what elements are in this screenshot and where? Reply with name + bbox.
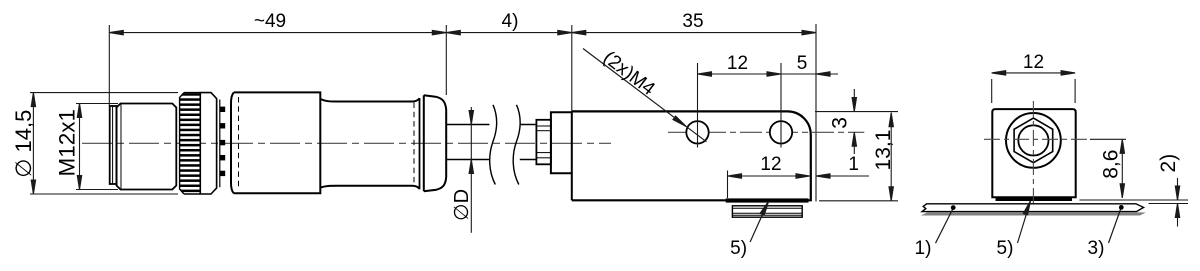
contact strip [216, 99, 218, 188]
hole crosshair left / ext line [697, 63, 699, 148]
svg-text:M12x1: M12x1 [55, 109, 80, 177]
sensing face strip [726, 198, 809, 202]
svg-text:8,6: 8,6 [1100, 150, 1123, 179]
svg-text:~49: ~49 [254, 11, 286, 32]
sensor main body [572, 111, 811, 200]
dim ~49 [109, 25, 446, 106]
end view vertical centerline [1032, 101, 1034, 206]
outer circle [1006, 113, 1061, 168]
svg-text:∅D: ∅D [451, 189, 473, 221]
dim M12x1 dimension line [76, 104, 118, 190]
dim 13,1 [819, 113, 898, 201]
cable break curve 2 [513, 105, 520, 185]
plate dot 1 [951, 205, 956, 210]
sensor body joint line [571, 111, 573, 200]
hidden line body [238, 97, 240, 190]
mounting plate (end view) [922, 204, 1144, 212]
pins [220, 107, 225, 176]
svg-text:3): 3) [1088, 238, 1105, 259]
svg-text:1): 1) [915, 238, 932, 259]
dim 3 [815, 89, 898, 154]
svg-text:1: 1 [848, 154, 859, 175]
strain relief collar [424, 95, 446, 191]
end view square body [992, 109, 1075, 197]
plate dot 2 [1119, 205, 1124, 210]
cable segment 1 [446, 124, 489, 126]
hole centerline [668, 131, 864, 133]
label 5) leader (side view) [750, 202, 768, 243]
thread M12 body [117, 104, 177, 190]
hole M4 right [770, 121, 792, 143]
sensor end cap [551, 112, 572, 173]
sensing tab plate (side view) [732, 206, 802, 217]
sensing face strip (end view) [996, 198, 1073, 201]
svg-text:4): 4) [502, 11, 519, 32]
label (2x)M4 leader [583, 49, 707, 142]
dim phi14,5 dimension line [30, 93, 178, 194]
thread chamfer line [120, 105, 122, 189]
svg-text:12: 12 [1023, 52, 1044, 73]
dim 5 top [781, 72, 838, 76]
svg-text:5): 5) [997, 238, 1014, 259]
label 1) [936, 210, 953, 244]
label 3) [1109, 210, 1121, 244]
svg-text:35: 35 [682, 11, 703, 32]
dim 2) [1079, 178, 1188, 227]
dim 12 (end view) [992, 71, 1075, 103]
svg-text:12: 12 [727, 53, 748, 74]
cable gland [536, 120, 551, 165]
svg-text:5): 5) [730, 238, 747, 259]
svg-text:∅ 14,5: ∅ 14,5 [11, 110, 36, 178]
dim 8,6 [1090, 139, 1126, 198]
hole crosshair right / ext line [780, 63, 782, 148]
knurl teeth band [180, 93, 201, 194]
hole M4 left [686, 121, 708, 143]
end view horizontal centerline [984, 138, 1090, 140]
cable break curve 1 [490, 105, 497, 185]
knurl chamfer edges [180, 93, 201, 194]
hex nut [1014, 118, 1053, 163]
label 5) (end view) [1018, 201, 1031, 243]
cable segment 2 [520, 124, 537, 126]
hidden line section2 [413, 103, 415, 186]
connector body section 2 [320, 98, 419, 189]
svg-text:12: 12 [760, 154, 781, 175]
svg-text:3: 3 [829, 117, 852, 129]
plate shadow band [921, 212, 1146, 215]
collar ring line [419, 98, 421, 189]
dim 35 [572, 24, 816, 202]
main centerline [82, 142, 611, 144]
dim 12 lower [728, 171, 811, 199]
svg-text:13,1: 13,1 [872, 130, 895, 171]
dim 1 [816, 174, 869, 178]
dim phiD [469, 107, 473, 233]
svg-text:2): 2) [1157, 154, 1180, 173]
inner circle [1018, 125, 1048, 155]
dim 12 top [698, 72, 782, 76]
dim 4) [446, 25, 572, 111]
connector flange (left end) [110, 106, 117, 184]
svg-text:5: 5 [797, 53, 808, 74]
connector body cylinder 1 [231, 92, 320, 193]
knurl smooth ring [200, 93, 216, 194]
